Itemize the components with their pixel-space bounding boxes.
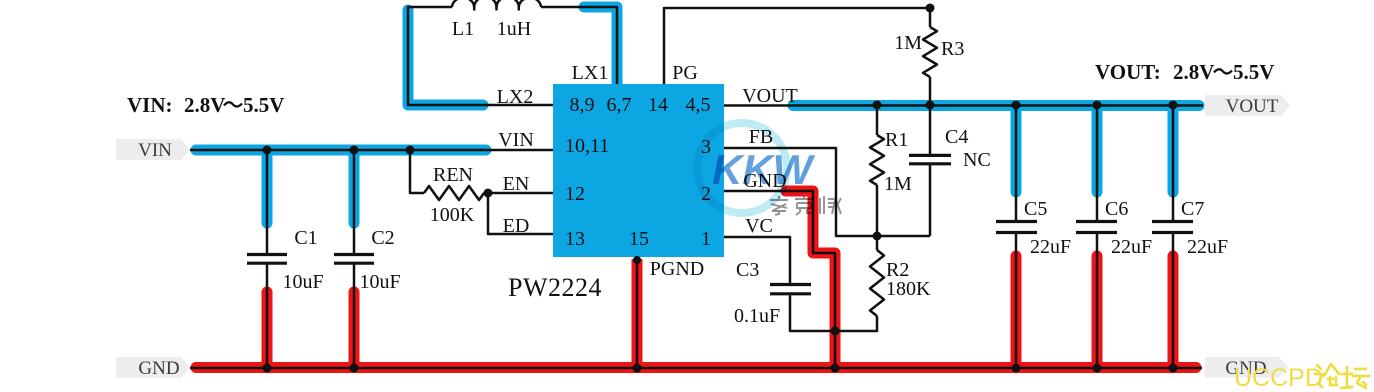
svg-text:C3: C3 [736, 259, 759, 281]
svg-text:PG: PG [672, 62, 698, 84]
svg-text:1M: 1M [894, 32, 922, 54]
svg-text:1uH: 1uH [497, 18, 531, 40]
svg-text:KKW: KKW [712, 146, 816, 193]
svg-text:C5: C5 [1024, 198, 1047, 220]
svg-text:VIN: VIN [498, 129, 534, 151]
svg-text:REN: REN [433, 164, 473, 186]
svg-text:C2: C2 [371, 227, 394, 249]
svg-text:100K: 100K [430, 204, 475, 226]
svg-text:1: 1 [701, 228, 711, 250]
svg-text:ED: ED [503, 215, 530, 237]
svg-text:2.8V: 2.8V [1173, 60, 1214, 84]
svg-text:VOUT: VOUT [1226, 96, 1279, 117]
svg-text:22uF: 22uF [1111, 236, 1152, 258]
svg-text:C4: C4 [945, 126, 968, 148]
svg-text:L1: L1 [452, 18, 474, 40]
svg-text:R3: R3 [941, 38, 964, 60]
svg-text:VIN: VIN [138, 140, 172, 161]
svg-text:UCCPD: UCCPD [1234, 364, 1323, 392]
svg-text:LX1: LX1 [572, 62, 609, 84]
svg-text:LX2: LX2 [497, 86, 534, 108]
svg-text:PGND: PGND [650, 258, 704, 280]
svg-text:VC: VC [745, 215, 773, 237]
svg-text:R1: R1 [885, 129, 908, 151]
svg-text:NC: NC [963, 149, 991, 171]
svg-text:8,9: 8,9 [570, 94, 595, 116]
svg-text:12: 12 [565, 183, 585, 205]
svg-text:4,5: 4,5 [686, 94, 711, 116]
svg-text:22uF: 22uF [1187, 236, 1228, 258]
svg-text:22uF: 22uF [1030, 236, 1071, 258]
svg-text:C7: C7 [1181, 198, 1204, 220]
svg-text:0.1uF: 0.1uF [734, 305, 780, 327]
svg-text:15: 15 [629, 228, 649, 250]
svg-text:6,7: 6,7 [607, 94, 632, 116]
svg-text:10uF: 10uF [359, 271, 400, 293]
svg-text:14: 14 [648, 94, 668, 116]
svg-text:GND: GND [138, 358, 179, 379]
svg-text:13: 13 [565, 228, 585, 250]
svg-text:EN: EN [503, 173, 530, 195]
svg-text:2.8V: 2.8V [184, 93, 225, 117]
svg-text:10uF: 10uF [282, 271, 323, 293]
svg-text:VIN:: VIN: [127, 93, 173, 117]
svg-text:C1: C1 [294, 227, 317, 249]
svg-text:C6: C6 [1105, 198, 1128, 220]
svg-text:VOUT:: VOUT: [1095, 60, 1161, 84]
svg-text:5.5V: 5.5V [1233, 60, 1274, 84]
svg-text:180K: 180K [886, 278, 931, 300]
svg-text:10,11: 10,11 [565, 135, 609, 157]
svg-text:5.5V: 5.5V [243, 93, 284, 117]
svg-text:1M: 1M [884, 173, 912, 195]
svg-text:PW2224: PW2224 [508, 273, 602, 302]
svg-text:VOUT: VOUT [742, 85, 798, 107]
